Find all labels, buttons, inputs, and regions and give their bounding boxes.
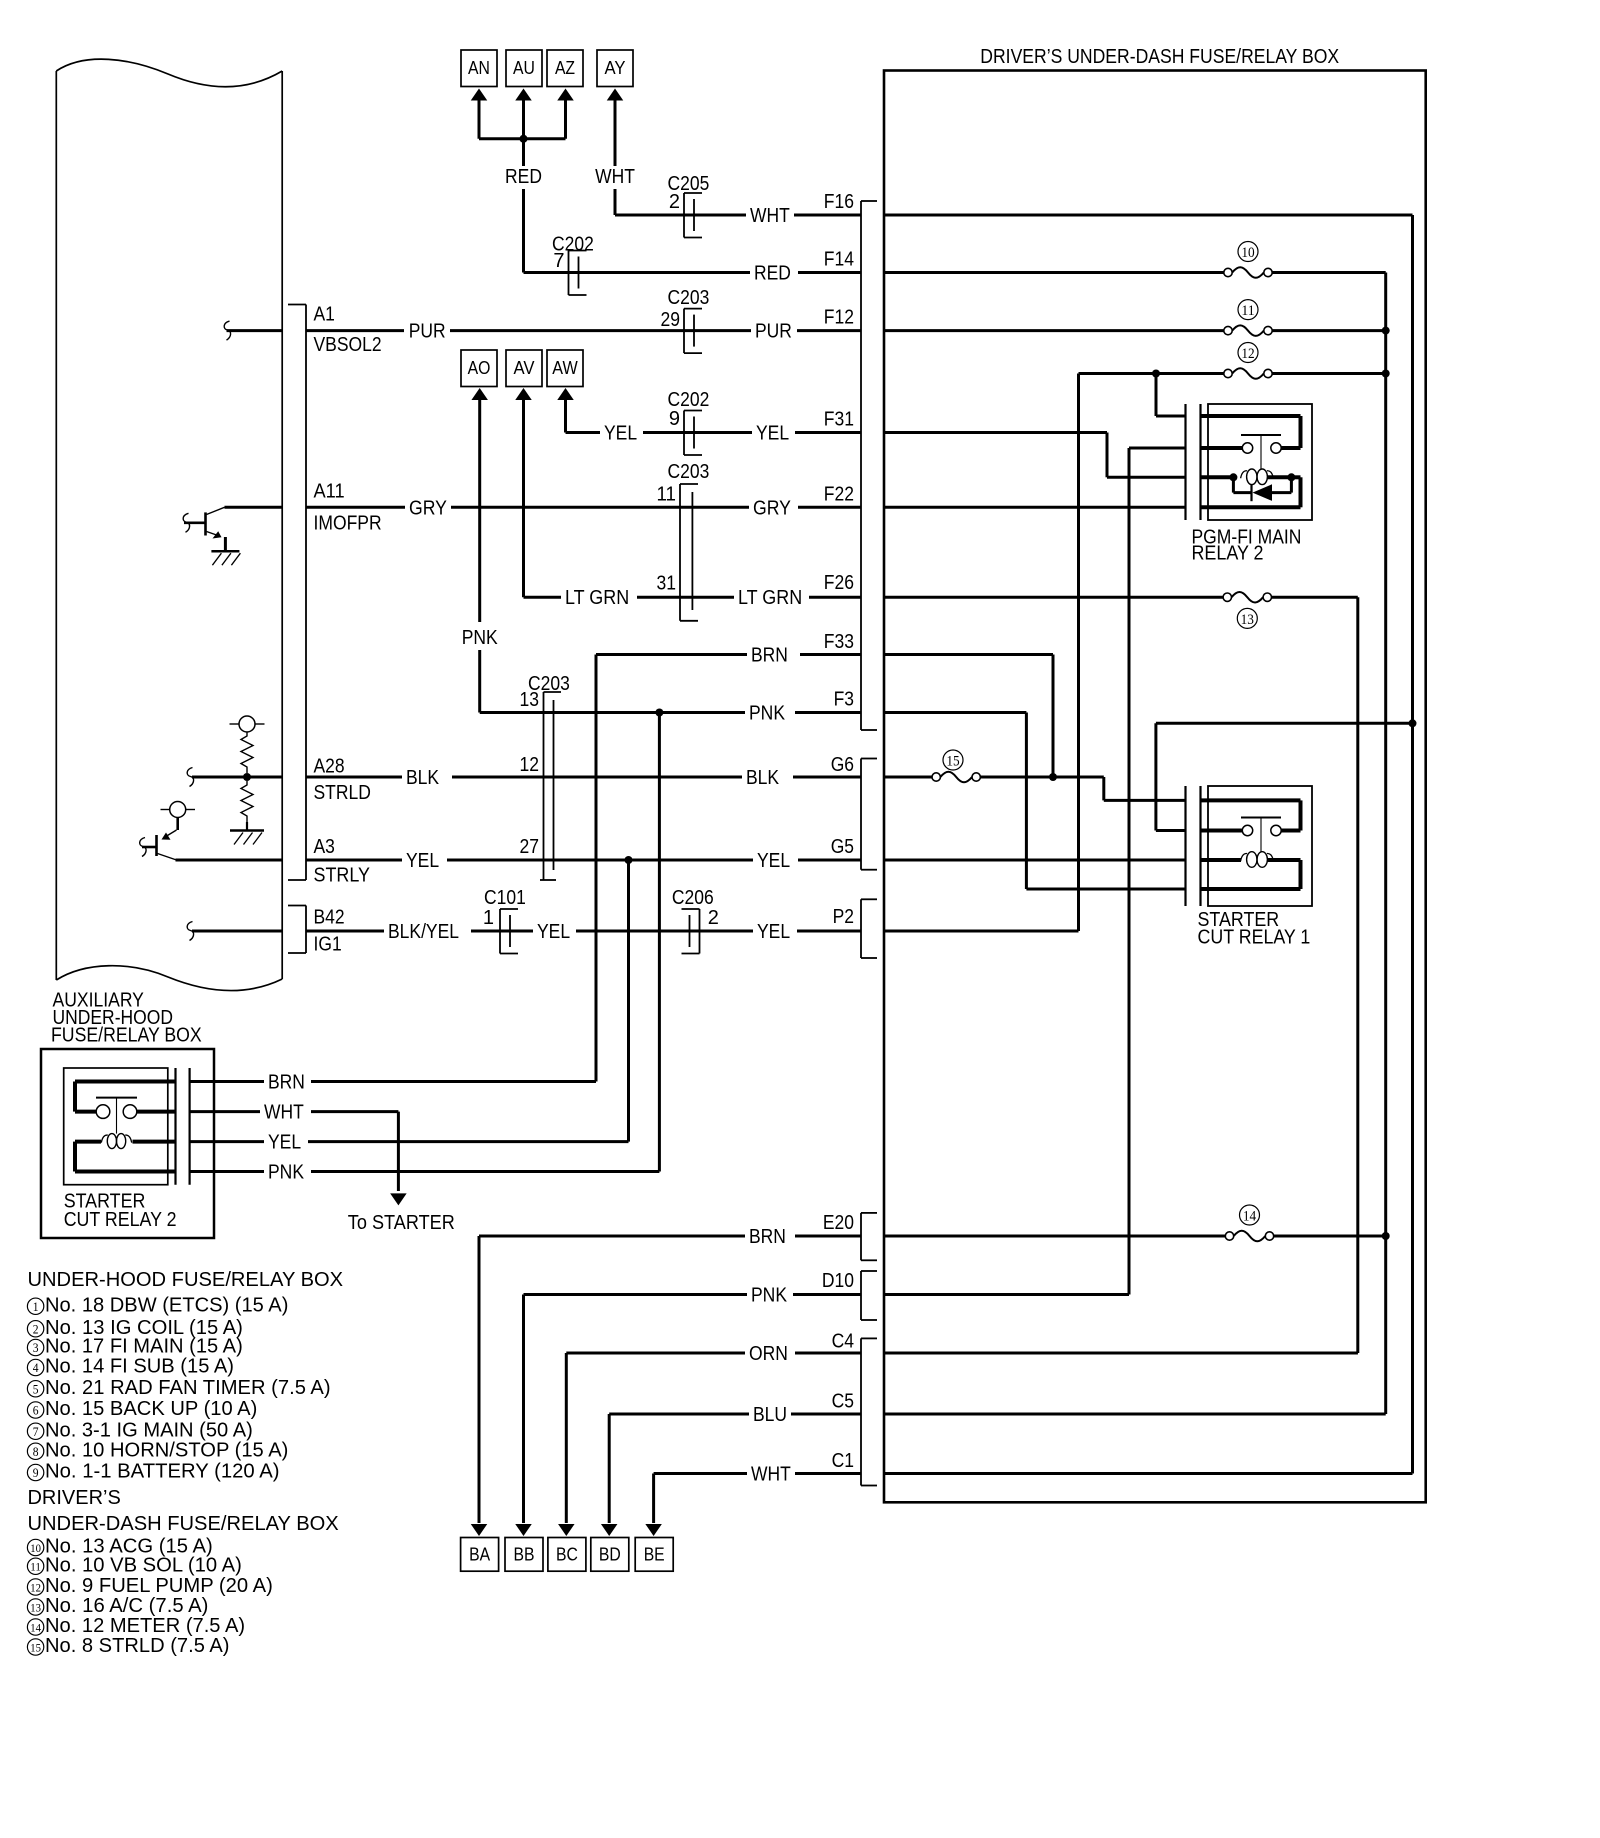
svg-text:31: 31 <box>657 573 677 595</box>
svg-text:3: 3 <box>33 1340 39 1355</box>
svg-text:A1: A1 <box>314 304 335 326</box>
svg-text:12: 12 <box>1241 346 1254 362</box>
svg-text:1: 1 <box>483 907 494 929</box>
svg-text:PNK: PNK <box>751 1285 788 1307</box>
svg-text:GRY: GRY <box>753 497 791 519</box>
svg-text:F33: F33 <box>824 631 854 653</box>
svg-text:15: 15 <box>30 1640 41 1654</box>
svg-text:IMOFPR: IMOFPR <box>314 512 382 534</box>
svg-text:WHT: WHT <box>595 166 635 188</box>
svg-text:No. 18 DBW (ETCS) (15 A): No. 18 DBW (ETCS) (15 A) <box>45 1294 288 1316</box>
svg-text:No. 9 FUEL PUMP (20 A): No. 9 FUEL PUMP (20 A) <box>45 1575 273 1597</box>
svg-text:LT GRN: LT GRN <box>565 587 629 609</box>
svg-text:WHT: WHT <box>751 1464 791 1486</box>
svg-text:11: 11 <box>1241 303 1254 319</box>
svg-text:To STARTER: To STARTER <box>348 1212 455 1234</box>
svg-text:P2: P2 <box>833 906 854 928</box>
svg-text:AY: AY <box>605 58 626 78</box>
svg-text:BLK/YEL: BLK/YEL <box>388 921 459 943</box>
svg-text:GRY: GRY <box>409 497 447 519</box>
svg-text:BLK: BLK <box>406 767 440 789</box>
svg-text:AZ: AZ <box>555 58 575 78</box>
svg-text:C1: C1 <box>832 1450 854 1472</box>
svg-text:RED: RED <box>754 263 791 285</box>
svg-text:F26: F26 <box>824 572 854 594</box>
svg-text:BA: BA <box>469 1545 490 1565</box>
svg-text:8: 8 <box>33 1444 39 1459</box>
svg-text:STRLY: STRLY <box>314 865 370 887</box>
svg-text:No. 14 FI SUB (15 A): No. 14 FI SUB (15 A) <box>45 1356 234 1378</box>
svg-text:No. 8 STRLD (7.5 A): No. 8 STRLD (7.5 A) <box>45 1635 230 1657</box>
svg-text:DRIVER’S: DRIVER’S <box>28 1487 121 1509</box>
svg-text:5: 5 <box>33 1381 39 1396</box>
svg-text:PNK: PNK <box>268 1162 305 1184</box>
svg-text:BLU: BLU <box>753 1404 787 1426</box>
svg-text:E20: E20 <box>823 1212 854 1234</box>
svg-text:PNK: PNK <box>462 627 499 649</box>
svg-text:ORN: ORN <box>749 1343 788 1365</box>
svg-text:AV: AV <box>514 358 535 378</box>
svg-text:9: 9 <box>33 1465 39 1480</box>
svg-text:CUT RELAY 1: CUT RELAY 1 <box>1198 927 1311 949</box>
svg-text:2: 2 <box>669 191 680 213</box>
svg-text:C4: C4 <box>832 1331 854 1353</box>
svg-text:BLK: BLK <box>746 767 780 789</box>
svg-text:A11: A11 <box>314 480 345 502</box>
svg-text:AU: AU <box>513 58 535 78</box>
svg-text:No. 15 BACK UP (10 A): No. 15 BACK UP (10 A) <box>45 1398 257 1420</box>
svg-text:BB: BB <box>514 1545 535 1565</box>
svg-text:15: 15 <box>946 753 959 769</box>
svg-text:9: 9 <box>669 408 680 430</box>
svg-text:7: 7 <box>553 250 564 272</box>
svg-text:PUR: PUR <box>755 321 792 343</box>
svg-text:AW: AW <box>552 358 577 378</box>
svg-text:YEL: YEL <box>757 921 790 943</box>
svg-text:AO: AO <box>468 358 491 378</box>
svg-text:YEL: YEL <box>604 423 637 445</box>
svg-text:4: 4 <box>33 1360 39 1375</box>
svg-text:No. 17 FI MAIN (15 A): No. 17 FI MAIN (15 A) <box>45 1336 243 1358</box>
svg-text:13: 13 <box>520 689 540 711</box>
svg-text:F31: F31 <box>824 409 854 431</box>
svg-text:LT GRN: LT GRN <box>738 587 802 609</box>
svg-text:UNDER-DASH FUSE/RELAY BOX: UNDER-DASH FUSE/RELAY BOX <box>28 1513 339 1535</box>
svg-text:C101: C101 <box>484 887 526 909</box>
svg-text:7: 7 <box>33 1424 39 1439</box>
svg-text:A3: A3 <box>314 836 335 858</box>
svg-text:RED: RED <box>505 166 542 188</box>
svg-text:PUR: PUR <box>409 321 446 343</box>
svg-text:11: 11 <box>30 1560 41 1574</box>
svg-text:BRN: BRN <box>268 1072 305 1094</box>
svg-text:B42: B42 <box>314 907 345 929</box>
svg-text:F3: F3 <box>834 689 854 711</box>
svg-text:No. 10 HORN/STOP (15 A): No. 10 HORN/STOP (15 A) <box>45 1439 288 1461</box>
svg-text:FUSE/RELAY BOX: FUSE/RELAY BOX <box>51 1025 202 1047</box>
svg-text:12: 12 <box>30 1580 41 1594</box>
svg-text:YEL: YEL <box>756 423 789 445</box>
svg-text:2: 2 <box>33 1321 39 1336</box>
svg-text:BC: BC <box>556 1545 578 1565</box>
svg-text:No. 21 RAD FAN TIMER (7.5 A): No. 21 RAD FAN TIMER (7.5 A) <box>45 1377 331 1399</box>
svg-text:VBSOL2: VBSOL2 <box>314 334 382 356</box>
svg-text:F14: F14 <box>824 249 854 271</box>
svg-text:No. 16 A/C (7.5 A): No. 16 A/C (7.5 A) <box>45 1595 208 1617</box>
svg-text:D10: D10 <box>822 1270 854 1292</box>
svg-text:F16: F16 <box>824 191 854 213</box>
svg-text:13: 13 <box>30 1600 41 1614</box>
svg-text:A28: A28 <box>314 756 345 778</box>
svg-text:14: 14 <box>1243 1208 1257 1224</box>
svg-text:C206: C206 <box>672 887 714 909</box>
svg-text:PNK: PNK <box>749 703 786 725</box>
svg-text:BRN: BRN <box>749 1226 786 1248</box>
svg-text:No. 3-1 IG MAIN (50 A): No. 3-1 IG MAIN (50 A) <box>45 1419 253 1441</box>
svg-text:10: 10 <box>30 1541 41 1555</box>
svg-text:12: 12 <box>520 754 540 776</box>
svg-text:C203: C203 <box>668 287 710 309</box>
svg-text:RELAY 2: RELAY 2 <box>1192 543 1264 565</box>
svg-text:F22: F22 <box>824 483 854 505</box>
svg-text:G6: G6 <box>831 754 854 776</box>
svg-text:6: 6 <box>33 1403 39 1418</box>
svg-text:DRIVER’S UNDER-DASH FUSE/RELAY: DRIVER’S UNDER-DASH FUSE/RELAY BOX <box>980 46 1339 68</box>
svg-text:WHT: WHT <box>264 1102 304 1124</box>
svg-text:WHT: WHT <box>750 205 790 227</box>
svg-text:UNDER-HOOD FUSE/RELAY BOX: UNDER-HOOD FUSE/RELAY BOX <box>28 1269 344 1291</box>
svg-text:13: 13 <box>1241 612 1254 628</box>
svg-text:2: 2 <box>708 907 719 929</box>
svg-text:14: 14 <box>30 1620 41 1634</box>
svg-text:YEL: YEL <box>406 850 439 872</box>
svg-text:27: 27 <box>520 836 540 858</box>
svg-text:10: 10 <box>1241 245 1254 261</box>
svg-text:YEL: YEL <box>537 921 570 943</box>
svg-text:AN: AN <box>468 58 490 78</box>
svg-text:No. 10 VB SOL (10 A): No. 10 VB SOL (10 A) <box>45 1554 242 1576</box>
svg-text:1: 1 <box>33 1299 39 1314</box>
svg-text:No. 1-1 BATTERY (120 A): No. 1-1 BATTERY (120 A) <box>45 1461 280 1483</box>
svg-text:STRLD: STRLD <box>314 782 371 804</box>
svg-text:YEL: YEL <box>757 850 790 872</box>
svg-text:YEL: YEL <box>268 1132 301 1154</box>
svg-text:11: 11 <box>657 484 677 506</box>
svg-text:No. 12 METER (7.5 A): No. 12 METER (7.5 A) <box>45 1615 245 1637</box>
svg-text:CUT RELAY 2: CUT RELAY 2 <box>64 1209 177 1231</box>
svg-text:BE: BE <box>644 1545 665 1565</box>
svg-text:BD: BD <box>599 1545 621 1565</box>
svg-text:C203: C203 <box>668 461 710 483</box>
svg-text:C5: C5 <box>832 1391 854 1413</box>
svg-text:F12: F12 <box>824 307 854 329</box>
svg-text:IG1: IG1 <box>314 934 342 956</box>
svg-text:G5: G5 <box>831 836 854 858</box>
svg-text:BRN: BRN <box>751 645 788 667</box>
svg-text:29: 29 <box>661 309 681 331</box>
